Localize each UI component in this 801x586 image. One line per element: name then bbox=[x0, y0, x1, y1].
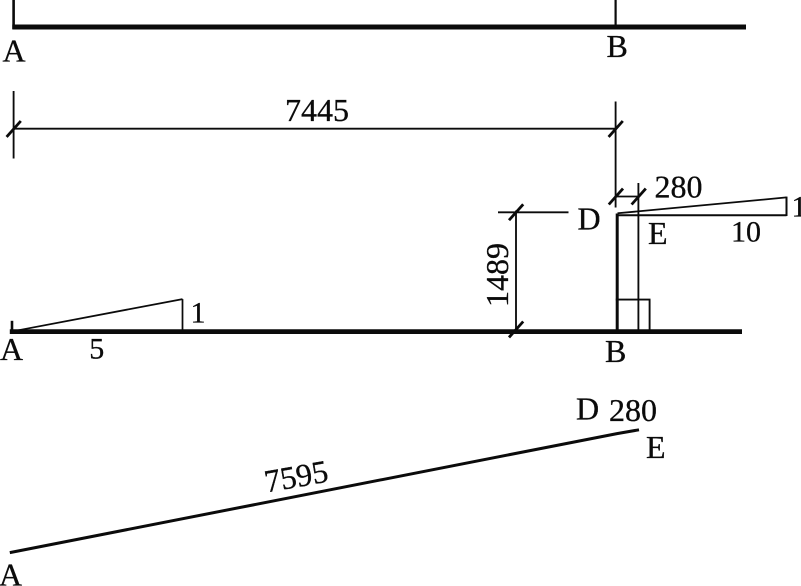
dimension 7445: dimension line bbox=[14, 128, 616, 130]
profile: slope 1:5 triangle right vertical edge bbox=[182, 299, 184, 331]
profile: step rectangle right edge bbox=[649, 300, 651, 331]
svg-text:1: 1 bbox=[792, 191, 801, 224]
dimension 1489: top slash tick bbox=[509, 204, 523, 220]
svg-text:E: E bbox=[648, 215, 668, 251]
dimension 1489: top extension line at D level bbox=[498, 211, 569, 213]
svg-text:5: 5 bbox=[89, 333, 104, 366]
profile: slope 1:5 hypotenuse from A bbox=[13, 299, 183, 331]
dimension 7445: left slash tick bbox=[7, 121, 21, 137]
svg-text:280: 280 bbox=[655, 168, 703, 204]
profile: slope 1:10 hypotenuse from D bbox=[618, 197, 787, 213]
dimension 7445: right extension line (down to D) bbox=[615, 102, 617, 208]
svg-text:10: 10 bbox=[731, 216, 761, 249]
svg-text:B: B bbox=[605, 333, 626, 369]
profile: slope 1:10 triangle right vertical edge bbox=[786, 197, 788, 216]
plan view: left end vertical tick at A bbox=[12, 0, 15, 29]
profile: step rectangle top edge bbox=[616, 299, 651, 301]
plan view: vertical tick at B bbox=[614, 0, 616, 27]
profile: platform top edge D-E horizontal bbox=[616, 214, 787, 216]
svg-text:D: D bbox=[576, 390, 599, 426]
dimension 1489: vertical dimension line bbox=[515, 211, 517, 333]
svg-text:B: B bbox=[607, 28, 628, 64]
dimension 280 (profile): right slash tick bbox=[632, 189, 646, 205]
profile: short vertical tick at A bbox=[11, 321, 14, 331]
profile: thick ground line A-B bbox=[10, 329, 742, 334]
svg-text:E: E bbox=[646, 429, 666, 465]
svg-text:280: 280 bbox=[609, 392, 657, 428]
dimension 280 (profile): right extension line E vertical bbox=[637, 183, 639, 331]
svg-text:1: 1 bbox=[191, 297, 206, 330]
dimension 280 (profile): dimension line bbox=[616, 196, 638, 198]
svg-text:A: A bbox=[3, 32, 26, 68]
dimension 1489: bottom slash tick bbox=[509, 322, 523, 338]
dimension 7445: right slash tick bbox=[609, 121, 623, 137]
svg-text:1489: 1489 bbox=[479, 243, 515, 307]
dimension 280 (profile): left slash tick bbox=[609, 189, 623, 205]
plan view: thick horizontal line A-B bbox=[12, 25, 746, 30]
svg-text:7445: 7445 bbox=[285, 92, 349, 128]
svg-text:A: A bbox=[0, 331, 23, 367]
dimension 7445: left extension line bbox=[13, 91, 15, 159]
svg-text:A: A bbox=[0, 557, 22, 586]
developed length: slanted line A-D-E bbox=[10, 430, 639, 553]
svg-text:D: D bbox=[578, 200, 601, 236]
profile: platform left vertical edge B-D bbox=[616, 214, 619, 332]
